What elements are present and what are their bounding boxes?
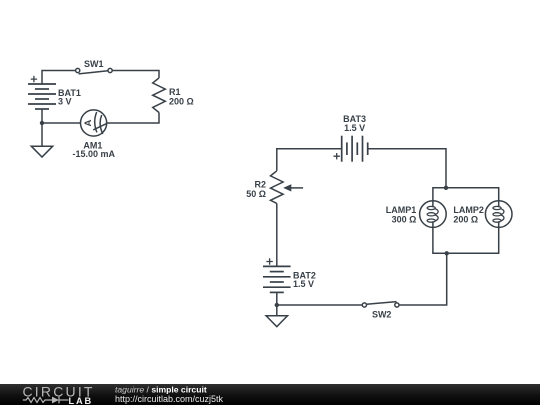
svg-text:http://circuitlab.com/cuzj5tk: http://circuitlab.com/cuzj5tk: [115, 394, 224, 404]
footer bar: [0, 384, 540, 405]
node A junction: [40, 121, 44, 125]
battery BAT1: [28, 76, 56, 109]
wire battery BAT1 top to switch SW1: [42, 71, 76, 85]
svg-text:200 Ω: 200 Ω: [169, 97, 194, 107]
wire node B to ground: [276, 305, 278, 316]
wire BAT2 bottom to node B: [276, 292, 278, 305]
wire SW1 to resistor R1: [112, 71, 159, 78]
node B junction: [275, 303, 279, 307]
node bottom junction: [445, 251, 449, 255]
wire bottom junction to switch SW2: [399, 253, 447, 305]
svg-text:1.5 V: 1.5 V: [293, 279, 314, 289]
logo resistor zigzag and diode: [23, 397, 69, 404]
battery BAT2: [263, 258, 291, 292]
svg-text:50 Ω: 50 Ω: [246, 189, 266, 199]
rheostat R2: [271, 171, 304, 204]
svg-text:200 Ω: 200 Ω: [453, 214, 478, 224]
wire lamp box top rail: [433, 188, 499, 201]
switch SW1: [76, 68, 113, 74]
wire BAT1 bottom to node A: [41, 109, 43, 123]
wire lamp box bottom rail: [433, 227, 499, 253]
ground (right circuit): [266, 316, 287, 327]
switch SW2: [362, 302, 399, 308]
svg-text:SW1: SW1: [84, 59, 104, 69]
wire ammeter to node A: [42, 122, 81, 124]
svg-text:300 Ω: 300 Ω: [392, 214, 417, 224]
wire BAT2 top to R2 bottom: [276, 203, 278, 266]
svg-text:LAB: LAB: [69, 396, 94, 405]
wire BAT3 to lamp box top: [368, 149, 446, 188]
svg-text:A: A: [83, 119, 94, 126]
svg-text:-15.00 mA: -15.00 mA: [73, 149, 116, 159]
ammeter AM1: [81, 110, 107, 136]
lamp LAMP2: [485, 201, 512, 228]
lamp LAMP1: [420, 201, 447, 228]
ground (left circuit): [31, 146, 52, 157]
svg-text:taguirre / simple circuit: taguirre / simple circuit: [115, 385, 207, 395]
wire R1 bottom to ammeter: [107, 113, 159, 124]
svg-text:R2: R2: [254, 179, 266, 189]
svg-text:1.5 V: 1.5 V: [344, 123, 365, 133]
svg-text:3 V: 3 V: [58, 97, 72, 107]
battery BAT3: [334, 136, 368, 162]
wire node A to ground: [41, 123, 43, 146]
wire rheostat R2 top to BAT3: [277, 149, 342, 171]
resistor R1: [153, 78, 166, 113]
wire SW2 to battery BAT2: [277, 304, 363, 306]
CircuitLab logo wordmark: [23, 384, 95, 405]
svg-text:SW2: SW2: [372, 309, 392, 319]
node top junction: [444, 186, 448, 190]
